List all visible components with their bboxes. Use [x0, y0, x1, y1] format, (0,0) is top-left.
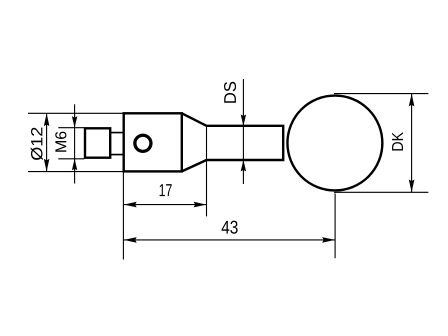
label 43 [222, 221, 238, 234]
label 17 [160, 184, 172, 196]
dimension M6: arrowheads [72, 116, 77, 128]
dimension DK: arrowheads [409, 94, 415, 107]
dimension DK: dimension line [411, 94, 413, 193]
dimension M6: extension lines [58, 128, 84, 159]
hole (cross hole in body) [135, 135, 151, 151]
shaft DS (stylus shaft) [207, 125, 284, 162]
dimension 17: extension line right [206, 126, 208, 216]
label DK [392, 132, 403, 150]
dimension 43: dimension line [123, 239, 335, 241]
dimension M6: dimension line [74, 104, 76, 183]
label DS [224, 82, 236, 103]
neck (undercut between thread and body) [110, 133, 124, 155]
dimension 43: extension line right (below ball) [334, 193, 336, 258]
stem M6 (threaded stud) [85, 128, 110, 157]
dimension DK: extension lines [334, 94, 428, 193]
dimension Ø12: dimension line [46, 113, 48, 171]
label Ø12 [31, 128, 43, 161]
dimension DS: dimension line [242, 79, 244, 184]
label M6 [55, 132, 66, 152]
dimension 17: dimension line [123, 204, 206, 206]
dimension Ø12: arrowheads [44, 113, 50, 126]
dimension 43: arrowheads [124, 237, 137, 243]
dimension 17: extension line left (shared with 43) [122, 171, 124, 259]
dimension 17: arrowheads [124, 202, 137, 208]
dimension Ø12: extension lines [28, 113, 124, 171]
taper (cone from body to shaft) [182, 113, 207, 171]
ball DK (sphere) [287, 96, 382, 191]
body Ø12 (cylinder) [124, 113, 182, 171]
dimension DS: arrowheads [241, 115, 246, 127]
